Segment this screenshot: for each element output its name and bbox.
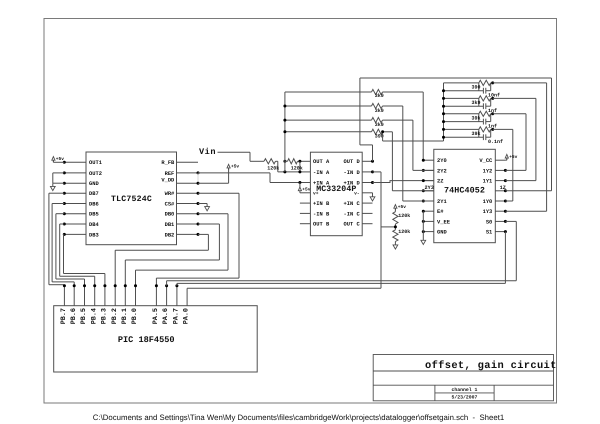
- svg-text:5/23/2007: 5/23/2007: [452, 394, 478, 400]
- svg-text:120k: 120k: [291, 166, 303, 172]
- svg-text:GND: GND: [437, 230, 447, 236]
- svg-text:-IN C: -IN C: [344, 211, 361, 217]
- svg-text:REF: REF: [165, 171, 175, 177]
- svg-text:DB6: DB6: [89, 201, 99, 207]
- svg-text:3k9: 3k9: [471, 100, 480, 106]
- svg-text:+5v: +5v: [398, 205, 406, 210]
- svg-text:WR#: WR#: [165, 191, 175, 197]
- svg-text:PB.6: PB.6: [70, 308, 78, 324]
- svg-text:0.1nf: 0.1nf: [488, 139, 503, 145]
- svg-text:S1: S1: [486, 230, 492, 236]
- svg-text:R_FB: R_FB: [161, 160, 175, 166]
- svg-text:PA.0: PA.0: [183, 308, 191, 324]
- svg-text:3k9: 3k9: [375, 93, 384, 99]
- svg-text:V_DD: V_DD: [161, 177, 175, 183]
- svg-text:GND: GND: [89, 181, 99, 187]
- svg-text:+5v: +5v: [231, 165, 239, 170]
- svg-text:V_CC: V_CC: [479, 158, 493, 164]
- svg-text:2Y3: 2Y3: [425, 185, 434, 191]
- svg-text:120k: 120k: [398, 213, 410, 219]
- svg-text:OUT2: OUT2: [89, 171, 102, 177]
- svg-text:2Y0: 2Y0: [437, 158, 447, 164]
- svg-text:+5v: +5v: [509, 155, 517, 160]
- svg-text:PB.1: PB.1: [121, 308, 129, 324]
- svg-text:OUT A: OUT A: [313, 159, 330, 165]
- svg-text:+IN B: +IN B: [313, 201, 330, 207]
- svg-text:74HC4052: 74HC4052: [444, 186, 485, 196]
- svg-text:1Y1: 1Y1: [483, 179, 493, 185]
- svg-text:TLC7524C: TLC7524C: [111, 195, 152, 204]
- svg-text:PB.2: PB.2: [111, 308, 119, 324]
- svg-text:+5v: +5v: [302, 188, 310, 193]
- svg-text:OUT C: OUT C: [344, 222, 361, 228]
- svg-text:DB1: DB1: [165, 222, 175, 228]
- svg-text:-IN D: -IN D: [344, 170, 361, 176]
- svg-text:120k: 120k: [398, 229, 410, 235]
- svg-text:channel 1: channel 1: [452, 387, 478, 393]
- svg-text:2Z: 2Z: [437, 179, 443, 185]
- svg-text:PB.5: PB.5: [80, 308, 88, 324]
- svg-text:PA.6: PA.6: [162, 308, 170, 324]
- svg-text:S0: S0: [486, 219, 492, 225]
- svg-text:C:\Documents and Settings\Tina: C:\Documents and Settings\Tina Wen\My Do…: [93, 413, 504, 422]
- svg-text:PIC 18F4550: PIC 18F4550: [118, 335, 175, 345]
- svg-text:2Y2: 2Y2: [437, 168, 447, 174]
- svg-text:2Y1: 2Y1: [437, 199, 447, 205]
- svg-text:DB5: DB5: [89, 212, 99, 218]
- svg-text:DB4: DB4: [89, 222, 99, 228]
- svg-text:39k: 39k: [471, 116, 480, 122]
- svg-text:1Y3: 1Y3: [483, 209, 493, 215]
- svg-text:OUT1: OUT1: [89, 160, 102, 166]
- svg-text:OUT D: OUT D: [344, 159, 361, 165]
- svg-text:offset, gain circuit: offset, gain circuit: [425, 360, 557, 372]
- svg-text:DB0: DB0: [165, 212, 175, 218]
- svg-text:V_EE: V_EE: [437, 219, 451, 225]
- svg-text:-IN B: -IN B: [313, 211, 330, 217]
- svg-text:DB2: DB2: [165, 232, 175, 238]
- svg-text:1Y0: 1Y0: [483, 199, 493, 205]
- svg-text:CS#: CS#: [165, 201, 175, 207]
- svg-text:+IN D: +IN D: [344, 180, 361, 186]
- svg-text:-IN A: -IN A: [313, 170, 330, 176]
- svg-text:3k9: 3k9: [375, 122, 384, 128]
- svg-text:E#: E#: [437, 209, 444, 215]
- svg-text:PB.3: PB.3: [101, 308, 109, 324]
- svg-text:390: 390: [471, 85, 480, 91]
- svg-text:PB.0: PB.0: [131, 308, 139, 324]
- svg-text:PA.7: PA.7: [173, 308, 181, 324]
- svg-text:+IN C: +IN C: [344, 201, 361, 207]
- svg-text:+IN A: +IN A: [313, 180, 330, 186]
- svg-text:Vin: Vin: [199, 147, 216, 157]
- svg-text:39k: 39k: [471, 131, 480, 137]
- svg-text:v+: v+: [313, 192, 319, 197]
- svg-text:PA.5: PA.5: [152, 308, 160, 324]
- svg-text:120k: 120k: [267, 166, 279, 172]
- svg-text:PB.4: PB.4: [90, 308, 98, 324]
- svg-text:OUT B: OUT B: [313, 222, 330, 228]
- svg-text:3k9: 3k9: [375, 108, 384, 114]
- svg-text:1Y2: 1Y2: [483, 168, 493, 174]
- svg-text:v-: v-: [354, 192, 360, 197]
- svg-text:+5v: +5v: [56, 157, 64, 162]
- svg-text:10nf: 10nf: [488, 92, 500, 98]
- svg-text:DB3: DB3: [89, 232, 99, 238]
- svg-text:DB7: DB7: [89, 191, 99, 197]
- svg-text:PB.7: PB.7: [60, 308, 68, 324]
